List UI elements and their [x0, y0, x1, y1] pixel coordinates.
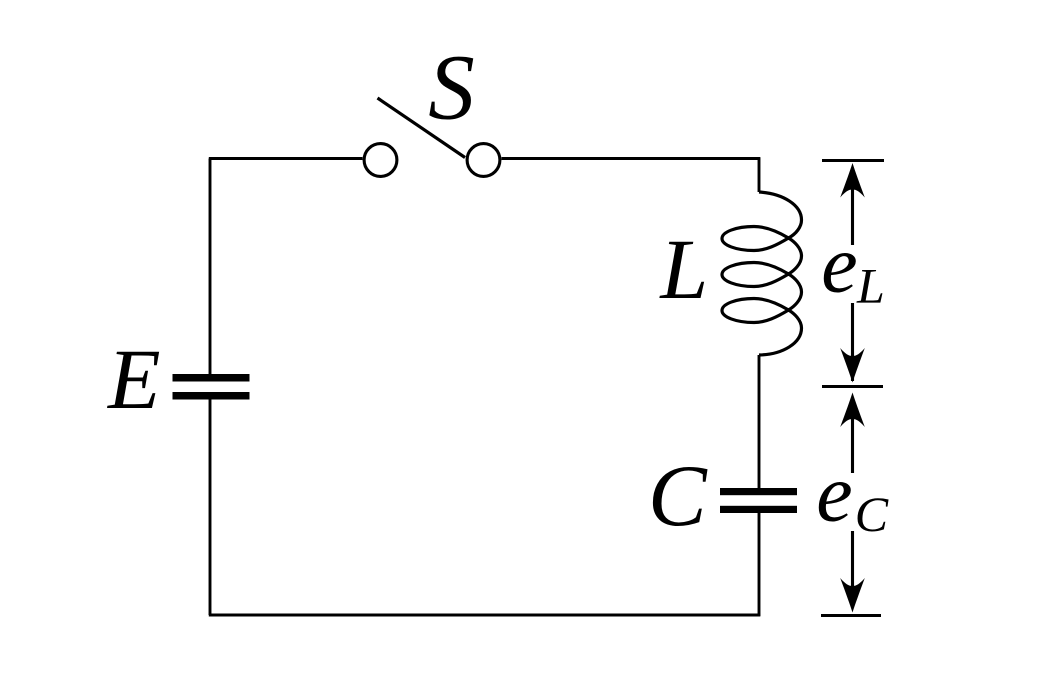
- dimension tick top: [822, 159, 884, 162]
- arrowhead up at top tick: [840, 163, 865, 198]
- wire right vertical above inductor: [758, 157, 761, 192]
- wire right vertical below capacitor: [758, 513, 761, 616]
- svg-text:S: S: [428, 37, 475, 140]
- svg-text:E: E: [106, 331, 161, 427]
- switch S contact circle right: [467, 144, 500, 177]
- svg-text:e: e: [816, 448, 852, 539]
- svg-text:L: L: [658, 221, 708, 317]
- e_L dimension line upper segment: [851, 175, 854, 245]
- svg-text:L: L: [856, 257, 885, 313]
- arrowhead down at bottom tick: [840, 578, 865, 613]
- wire left vertical (battery top section): [209, 159, 212, 375]
- battery E top plate: [173, 374, 250, 382]
- wire right vertical between inductor and capacitor: [758, 355, 761, 488]
- dimension tick bottom: [821, 614, 881, 617]
- switch S blade: [378, 98, 466, 158]
- wire left vertical (battery bottom section): [209, 400, 212, 616]
- arrowhead down at middle tick (upper side): [840, 348, 865, 383]
- e_L dimension line lower segment: [851, 303, 854, 381]
- e_C dimension line lower segment: [851, 531, 854, 605]
- wire top horizontal right of switch: [502, 157, 761, 160]
- arrowhead up below middle tick: [840, 393, 865, 428]
- svg-text:e: e: [821, 219, 857, 310]
- capacitor C top plate: [720, 488, 797, 495]
- switch S contact circle left: [364, 144, 397, 177]
- battery E bottom plate: [173, 392, 250, 400]
- wire top horizontal left of switch: [209, 157, 363, 160]
- dimension tick middle: [822, 385, 883, 388]
- capacitor C bottom plate: [720, 506, 797, 513]
- e_C dimension line upper segment: [851, 401, 854, 473]
- inductor L coil: [722, 192, 802, 355]
- svg-text:C: C: [855, 486, 889, 542]
- svg-text:C: C: [648, 448, 708, 545]
- wire bottom horizontal: [209, 614, 760, 617]
